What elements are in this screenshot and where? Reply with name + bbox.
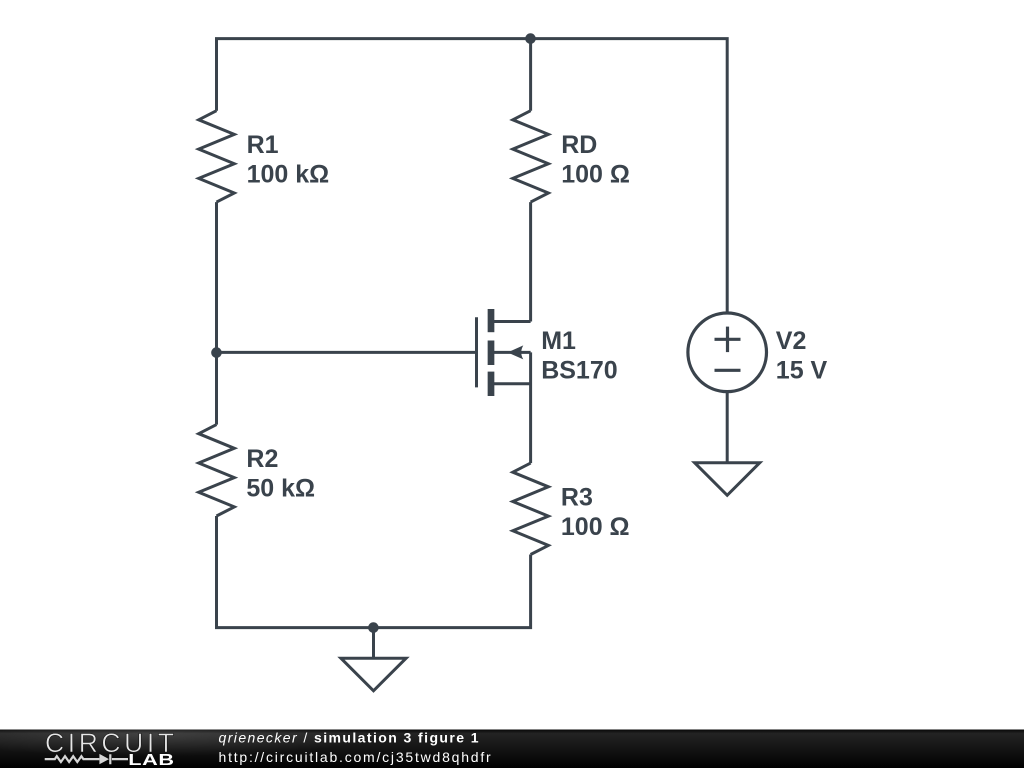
V2 minus sign [715,369,741,372]
transistor M1 channel bars [488,309,495,396]
svg-text:50 kΩ: 50 kΩ [246,475,315,503]
svg-text:BS170: BS170 [541,357,617,385]
svg-text:LAB: LAB [128,751,174,768]
transistor M1 arrow [508,345,524,359]
ground (V2) [695,463,760,496]
node dot bottom [368,622,379,633]
svg-text:http://circuitlab.com/cj35twd8: http://circuitlab.com/cj35twd8qhdfr [219,749,493,765]
svg-text:qrienecker / simulation 3 figu: qrienecker / simulation 3 figure 1 [219,730,480,746]
svg-text:15 V: 15 V [776,357,828,385]
wire left column R2 to bottom [217,516,531,628]
wire mosfet source to R3 [529,352,532,463]
resistor RD [513,111,549,202]
footer bar [0,730,1024,768]
wire gate [217,351,477,354]
logo wave resistor-diode [45,754,128,764]
svg-text:M1: M1 [541,327,576,355]
svg-text:100 Ω: 100 Ω [561,160,630,188]
resistor R3 [513,463,549,554]
transistor M1 source lead [491,382,531,385]
svg-text:R2: R2 [246,445,278,473]
wire RD to mosfet drain [529,202,532,321]
wire left column R1-R2 [215,202,218,425]
resistor R2 [199,425,235,516]
wire mid column top to RD [529,39,532,111]
transistor M1 body lead [491,351,531,354]
transistor M1 gate bar [475,317,478,387]
svg-text:100 kΩ: 100 kΩ [247,160,330,188]
svg-text:RD: RD [561,131,597,159]
node dot top rail [525,33,536,44]
svg-text:R3: R3 [561,484,593,512]
transistor M1 drain lead [491,320,531,323]
svg-text:R1: R1 [247,131,279,159]
wire bottom node to ground [372,628,375,659]
voltage source V2 circle [688,313,767,392]
node dot gate [211,347,222,358]
resistor R1 [199,111,235,202]
wire top rail [217,39,728,313]
V2 plus sign [715,327,741,371]
svg-text:V2: V2 [776,327,807,355]
svg-text:100 Ω: 100 Ω [561,513,630,541]
wire V2 to ground [726,392,729,463]
ground (bottom) [341,658,406,691]
